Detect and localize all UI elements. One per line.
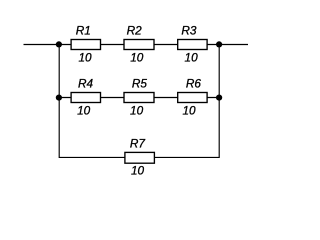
svg-text:10: 10 (185, 50, 199, 64)
svg-text:10: 10 (130, 103, 144, 117)
svg-text:R7: R7 (130, 136, 146, 150)
svg-text:10: 10 (130, 50, 144, 64)
svg-text:R2: R2 (127, 23, 143, 37)
svg-text:R4: R4 (78, 76, 94, 90)
svg-text:10: 10 (78, 50, 92, 64)
svg-text:R1: R1 (76, 23, 91, 37)
svg-text:10: 10 (77, 103, 91, 117)
svg-text:R5: R5 (132, 76, 148, 90)
svg-text:R3: R3 (181, 23, 197, 37)
svg-text:10: 10 (131, 164, 145, 178)
svg-text:R6: R6 (186, 76, 202, 90)
svg-text:10: 10 (182, 103, 196, 117)
